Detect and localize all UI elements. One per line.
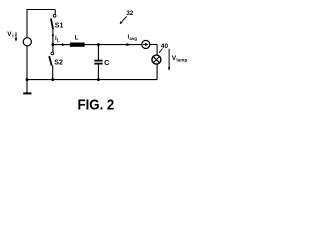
wire inductor L to node B: [85, 44, 99, 46]
wire S1 bottom to node A: [52, 29, 54, 45]
wire S1 top drop: [54, 10, 56, 15]
wire S2 top lead: [52, 45, 54, 52]
inductor L: [70, 43, 85, 47]
arrow 32 leader (points down-left): [120, 16, 127, 24]
label S1: [55, 23, 64, 30]
svg-text:L: L: [57, 37, 60, 42]
svg-text:lamp: lamp: [176, 57, 187, 62]
node S2 bottom junction dot: [51, 78, 54, 81]
label iavg: [128, 34, 138, 41]
wire node A to inductor L: [53, 44, 70, 46]
wire top rail: [27, 9, 56, 11]
label Vi: [7, 31, 14, 40]
voltage source Vi: [23, 38, 31, 46]
node B junction dot: [97, 43, 100, 46]
wire node B to sensor 40: [98, 44, 141, 46]
arrow Vi (downward): [15, 32, 18, 41]
capacitor C: [94, 61, 102, 64]
switch S2: [49, 52, 53, 66]
arrow iL vertical (down, on S1-node wire): [52, 35, 54, 38]
ground: [23, 92, 31, 94]
leader 40 to lamp: [159, 49, 163, 53]
wire lamp bottom lead: [156, 64, 158, 80]
current sensor 40 (circle with arrow): [142, 40, 150, 48]
label C: [104, 58, 109, 67]
wire capacitor top lead: [97, 45, 99, 60]
svg-text:FIG. 2: FIG. 2: [78, 96, 115, 113]
svg-text:avg: avg: [129, 36, 137, 41]
switch S1: [51, 14, 56, 29]
node C bottom junction dot: [97, 78, 100, 81]
arrow iavg on wire (right): [126, 43, 131, 46]
svg-text:C: C: [104, 58, 109, 67]
caption FIG. 2: [78, 96, 115, 113]
svg-text:i: i: [12, 34, 14, 40]
node left bottom junction dot: [26, 78, 29, 81]
wire bottom rail: [27, 79, 158, 81]
arrow iL on wire (right): [62, 43, 66, 46]
label Vlamp: [172, 55, 188, 62]
wire left vertical top (source to top rail): [26, 10, 28, 38]
svg-text:32: 32: [126, 10, 134, 17]
lamp (circle with X): [152, 55, 161, 64]
wire ground lead: [26, 80, 28, 93]
svg-text:L: L: [75, 34, 79, 41]
label 32: [126, 10, 134, 17]
wire right corner down to lamp: [156, 45, 158, 56]
wire source bottom to bottom rail: [26, 46, 28, 80]
arrow Vlamp (downward): [168, 49, 170, 71]
wire capacitor bottom lead: [97, 64, 99, 79]
wire sensor to right corner: [150, 44, 157, 46]
wire S2 bottom lead: [52, 66, 54, 80]
node A junction dot: [51, 43, 54, 46]
label L: [75, 34, 79, 41]
svg-text:S2: S2: [54, 60, 63, 67]
svg-text:S1: S1: [55, 23, 64, 30]
label S2: [54, 60, 63, 67]
label iL: [55, 35, 60, 42]
label 40: [161, 43, 169, 50]
